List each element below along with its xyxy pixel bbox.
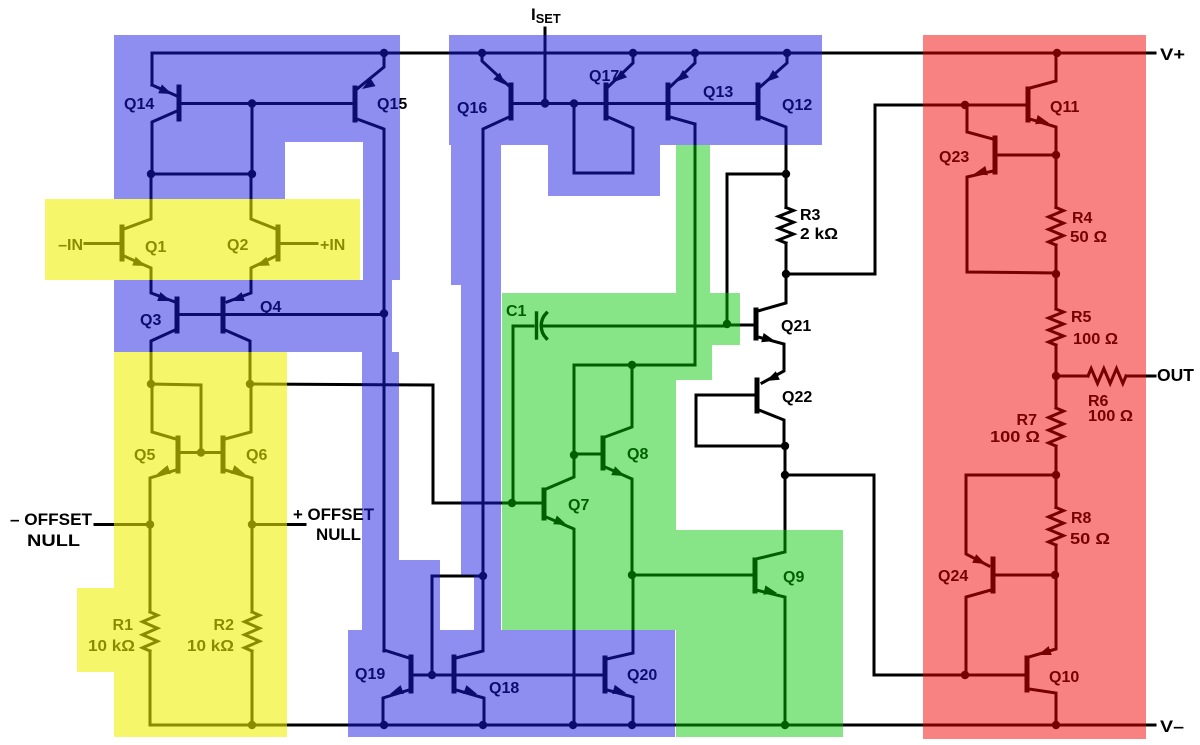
svg-text:Q22: Q22 <box>782 389 812 406</box>
svg-text:V–: V– <box>1160 717 1184 736</box>
svg-text:NULL: NULL <box>27 531 80 550</box>
svg-text:R3: R3 <box>800 207 821 224</box>
svg-text:Q21: Q21 <box>781 318 811 335</box>
svg-text:– OFFSET: – OFFSET <box>10 510 93 529</box>
svg-text:2 kΩ: 2 kΩ <box>800 226 838 243</box>
svg-text:OUT: OUT <box>1157 365 1194 385</box>
svg-text:NULL: NULL <box>316 525 361 544</box>
svg-text:V+: V+ <box>1160 45 1185 64</box>
